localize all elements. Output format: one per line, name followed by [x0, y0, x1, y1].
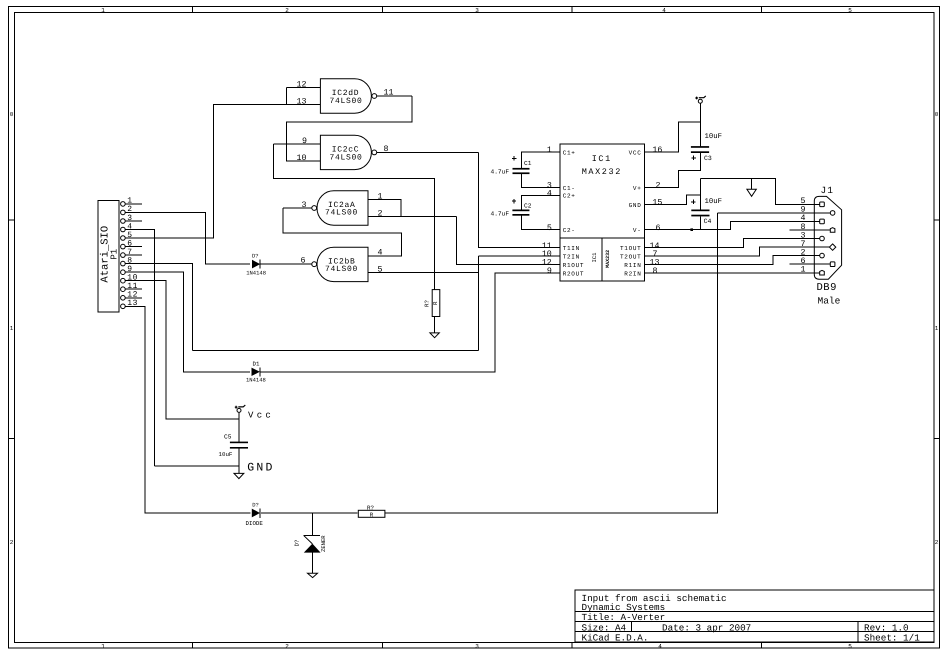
MAX232 pin 13 R1IN — [624, 259, 659, 269]
svg-text:10: 10 — [297, 154, 307, 163]
nand gate IC2c body — [320, 135, 376, 169]
svg-text:2: 2 — [656, 182, 661, 191]
svg-text:0: 0 — [935, 111, 939, 118]
svg-text:8: 8 — [384, 145, 389, 154]
svg-text:3: 3 — [475, 7, 479, 14]
J1 pin 8 — [790, 223, 835, 233]
J1 pin 3 — [801, 231, 825, 241]
P1 pin 12 — [121, 291, 142, 301]
IC2c pin 9 — [274, 137, 321, 146]
svg-text:1: 1 — [10, 325, 14, 332]
wire C1 bottom to pin3 — [521, 174, 560, 187]
svg-text:9: 9 — [547, 267, 552, 276]
svg-text:MAX232: MAX232 — [605, 250, 611, 268]
svg-text:4: 4 — [662, 7, 666, 14]
svg-text:C1-: C1- — [563, 185, 576, 192]
svg-text:11: 11 — [384, 89, 394, 98]
nand gate IC2a body (mirrored) — [312, 191, 368, 225]
svg-text:74LS00: 74LS00 — [325, 265, 358, 274]
MAX232 pin 6 V- — [633, 224, 661, 234]
P1 pin 7 — [121, 248, 142, 258]
svg-text:GND: GND — [247, 461, 274, 474]
wire P1.8 down to T2IN rail — [142, 264, 193, 351]
wire IC2d.11 feedback to IC2c.10 — [287, 96, 412, 161]
wire P1.2 to diode D? anode — [142, 212, 250, 264]
wire bottom rail R7 to DB9.9 vertical — [385, 213, 718, 513]
svg-text:D?: D? — [252, 253, 259, 260]
svg-text:P1: P1 — [109, 249, 119, 260]
wire bottom rail D7 to R7 — [261, 512, 358, 514]
IC2b pin 4 number — [378, 249, 383, 258]
wire C2 bottom to pin5 — [521, 216, 560, 230]
svg-text:16: 16 — [652, 146, 662, 155]
svg-text:R?: R? — [424, 300, 431, 307]
wire D? cathode to IC2b output 6 — [261, 263, 311, 265]
border column labels top — [101, 7, 852, 14]
J1 pin 1 — [801, 266, 825, 275]
svg-text:5: 5 — [848, 643, 852, 650]
svg-text:ZENER: ZENER — [320, 535, 327, 552]
wire P1.13 down to bottom rail — [142, 306, 251, 513]
wire C3 bottom to pin2 V+ — [644, 153, 700, 188]
svg-text:3: 3 — [475, 643, 479, 650]
MAX232 pin 8 R2IN — [624, 267, 657, 277]
J1 pin 5 — [801, 197, 825, 207]
wire P1.10 to Vcc stem — [142, 281, 239, 419]
svg-text:V+: V+ — [633, 185, 642, 192]
svg-text:C1+: C1+ — [563, 149, 576, 156]
J1 pin 4 — [801, 214, 825, 224]
svg-text:DIODE: DIODE — [246, 520, 264, 527]
junction on V- wire — [690, 228, 693, 231]
svg-text:D?: D? — [294, 539, 301, 546]
wire T2OUT to DB9.7 — [644, 247, 829, 256]
svg-text:1: 1 — [547, 146, 552, 155]
svg-text:74LS00: 74LS00 — [325, 209, 358, 218]
svg-text:15: 15 — [652, 199, 662, 208]
IC2d pin 12 — [287, 80, 321, 89]
IC U1 MAX232 main box — [560, 144, 644, 238]
IC2b pin 6 output wire to bubble — [301, 257, 312, 266]
wire pin4 to C2 top — [521, 195, 560, 209]
svg-text:C5: C5 — [224, 434, 232, 441]
MAX232 pin 3 C1- — [547, 182, 576, 192]
ground arrow below zener — [308, 573, 318, 577]
MAX232 pin 10 T2IN — [542, 250, 580, 260]
wire pin15 GND up to gnd net — [644, 195, 700, 205]
svg-text:C2: C2 — [524, 203, 532, 210]
wire pin6 V- to DB9.4 — [644, 221, 819, 229]
svg-text:GND: GND — [629, 202, 642, 209]
wire C4 bottom to V- wire — [699, 216, 701, 229]
svg-text:2: 2 — [285, 7, 289, 14]
border row labels right — [935, 111, 939, 546]
svg-text:D1: D1 — [253, 360, 260, 367]
svg-text:T1IN: T1IN — [563, 245, 580, 252]
IC2c pin 10 — [297, 154, 307, 163]
P1 pin 3 — [121, 214, 142, 224]
wire T2IN row to MAX232 — [479, 255, 560, 257]
svg-text:10uF: 10uF — [705, 198, 723, 206]
svg-text:13: 13 — [297, 97, 307, 106]
svg-text:1: 1 — [378, 192, 383, 201]
wire IC2c.8 down to T1IN — [479, 152, 560, 247]
wire P1.5 to IC2d inputs — [142, 104, 321, 238]
label GND — [247, 461, 274, 474]
power symbol Vcc — [235, 405, 246, 442]
svg-text:T1OUT: T1OUT — [620, 245, 642, 252]
svg-text:1: 1 — [801, 266, 806, 275]
svg-text:R: R — [370, 511, 374, 518]
border column labels bottom — [101, 643, 852, 650]
IC2a pin 3 output — [283, 201, 312, 210]
svg-text:IC1: IC1 — [591, 252, 598, 263]
power symbol flag top — [695, 96, 706, 147]
svg-text:1: 1 — [101, 7, 105, 14]
svg-text:6: 6 — [656, 224, 661, 233]
svg-text:D?: D? — [252, 502, 259, 509]
svg-text:9: 9 — [302, 137, 307, 146]
zener diode D? — [294, 535, 327, 573]
MAX232 pin 2 V+ — [633, 182, 661, 192]
svg-text:C2+: C2+ — [563, 193, 576, 200]
svg-text:Male: Male — [818, 296, 841, 307]
svg-text:2: 2 — [378, 209, 383, 218]
svg-text:0: 0 — [10, 111, 14, 118]
ground arrow below R? — [430, 333, 439, 338]
diode D7 — [246, 502, 264, 528]
capacitor C4 10uF — [691, 198, 722, 225]
svg-text:2: 2 — [10, 539, 14, 546]
svg-text:C3: C3 — [704, 155, 712, 162]
connector J1 DB9 outline — [814, 185, 841, 307]
svg-text:IC1: IC1 — [592, 154, 612, 164]
wire R1IN to DB9.2 — [644, 256, 819, 265]
svg-text:74LS00: 74LS00 — [329, 153, 362, 162]
svg-text:C2-: C2- — [563, 227, 576, 234]
svg-text:C4: C4 — [704, 218, 712, 225]
svg-text:T2IN: T2IN — [563, 254, 580, 261]
nand gate IC2d body — [320, 79, 376, 113]
svg-text:C1: C1 — [524, 160, 532, 167]
wire T2IN riser — [478, 256, 480, 351]
capacitor C2 4.7uF — [491, 199, 532, 218]
svg-text:2: 2 — [935, 539, 939, 546]
wire pin16 VCC up — [644, 122, 700, 152]
MAX232 pin 5 C2- — [547, 224, 576, 234]
svg-text:VCC: VCC — [629, 149, 642, 156]
svg-text:10uF: 10uF — [705, 133, 723, 141]
svg-text:5: 5 — [547, 224, 552, 233]
wire P1.9 down to D1 row — [142, 272, 250, 372]
svg-text:R1IN: R1IN — [624, 262, 641, 269]
MAX232 pin 7 T2OUT — [620, 250, 658, 260]
MAX232 lower box — [560, 238, 644, 281]
svg-text:KiCad E.D.A.: KiCad E.D.A. — [582, 633, 649, 644]
zener D? branch from rail — [312, 513, 314, 536]
svg-text:8: 8 — [653, 267, 658, 276]
capacitor C3 10uF — [691, 133, 722, 162]
IC2c pin 8 output — [377, 145, 479, 154]
wire IC2c.9 pulldown to R? — [274, 144, 435, 290]
svg-text:MAX232: MAX232 — [582, 167, 622, 177]
wire IC2a.3 to IC2b.4 — [283, 208, 401, 256]
IC2b pin 5 — [368, 266, 479, 275]
capacitor C1 4.7uF — [491, 156, 532, 175]
svg-text:4: 4 — [547, 189, 552, 198]
wire P1.4 to GND rail — [142, 230, 155, 466]
nand gate IC2b body (mirrored) — [312, 247, 368, 281]
P1 pin 1 — [121, 197, 142, 207]
svg-text:74LS00: 74LS00 — [329, 97, 362, 106]
IC2a pin 1 — [368, 192, 401, 216]
wire T2IN rail horizontal — [193, 350, 479, 352]
P1 pin 13 — [121, 299, 142, 309]
wire pin1 to C1 top — [521, 152, 560, 168]
P1 pin 4 — [121, 222, 142, 232]
svg-text:R2OUT: R2OUT — [563, 270, 585, 277]
MAX232 pin 14 T1OUT — [620, 242, 659, 252]
MAX232 pin 11 T1IN — [542, 242, 580, 252]
svg-text:12: 12 — [297, 80, 307, 89]
svg-text:2: 2 — [285, 643, 289, 650]
wire T1OUT to DB9.3 — [644, 239, 819, 248]
svg-text:4: 4 — [378, 249, 383, 258]
svg-text:4.7uF: 4.7uF — [491, 168, 510, 175]
wire GND row P1.4 to C5 stem — [155, 465, 239, 467]
P1 pin 10 — [121, 274, 142, 284]
ground arrow on gnd run — [747, 178, 756, 196]
wire IC2a inputs to R1OUT — [457, 216, 560, 264]
MAX232 pin 9 R2OUT — [547, 267, 584, 277]
border row labels left — [10, 111, 14, 546]
diode D? 1N4148 — [246, 253, 266, 277]
J1 pin 6 — [790, 257, 835, 267]
svg-text:V-: V- — [633, 227, 642, 234]
label Vcc — [248, 411, 274, 421]
svg-text:5: 5 — [378, 266, 383, 275]
MAX232 pin 1 C1+ — [547, 146, 576, 156]
J1 pin 7 — [801, 240, 836, 250]
svg-text:T2OUT: T2OUT — [620, 254, 642, 261]
svg-text:13: 13 — [127, 299, 138, 308]
svg-text:Sheet: 1/1: Sheet: 1/1 — [864, 633, 920, 644]
P1 pin 5 — [121, 231, 142, 241]
IC2d pin 11 output — [377, 89, 412, 98]
svg-text:4.7uF: 4.7uF — [491, 211, 510, 218]
svg-text:R2IN: R2IN — [624, 270, 641, 277]
TITLE-BLOCK — [575, 590, 934, 643]
svg-text:R1OUT: R1OUT — [563, 262, 585, 269]
IC2d pin 13 tie — [287, 87, 307, 106]
svg-text:4: 4 — [658, 643, 662, 650]
wire R? to ground arrow — [434, 317, 436, 333]
gnd net riser and top run — [700, 178, 819, 209]
MAX232 pin 16 VCC — [629, 146, 663, 156]
svg-text:1: 1 — [935, 325, 939, 332]
MAX232 pin 15 GND — [629, 199, 663, 209]
IC2a pin 2 — [368, 209, 457, 218]
P1 pin 2 — [121, 205, 142, 215]
resistor R7 — [358, 505, 385, 519]
J1 pin 2 — [801, 248, 825, 258]
connector P1 Atari_SIO body — [98, 201, 120, 312]
svg-text:10uF: 10uF — [219, 451, 233, 458]
ground arrow below C5 — [234, 473, 244, 478]
svg-text:1N4148: 1N4148 — [246, 377, 266, 384]
svg-text:1N4148: 1N4148 — [246, 269, 266, 276]
wire R2IN to DB9.1 — [644, 272, 819, 274]
P1 pin 11 — [121, 282, 142, 292]
MAX232 pin 12 R1OUT — [542, 259, 584, 269]
P1 pin 6 — [121, 239, 142, 249]
resistor R? — [424, 290, 440, 317]
wire D1 cathode to R2OUT — [261, 273, 560, 372]
svg-text:R: R — [432, 301, 439, 305]
J1 pin 9 — [717, 206, 835, 216]
P1 pin 9 — [121, 265, 142, 275]
svg-text:3: 3 — [302, 201, 307, 210]
svg-text:6: 6 — [301, 257, 306, 266]
svg-text:DB9: DB9 — [817, 282, 837, 294]
svg-text:5: 5 — [848, 7, 852, 14]
capacitor C5 — [219, 434, 249, 474]
svg-text:Date: 3 apr 2007: Date: 3 apr 2007 — [662, 622, 751, 633]
svg-text:Vcc: Vcc — [248, 411, 274, 421]
svg-text:J1: J1 — [821, 185, 834, 196]
diode D1 1N4148 — [246, 360, 266, 383]
P1 pin 8 — [121, 256, 142, 266]
svg-text:1: 1 — [101, 643, 105, 650]
MAX232 pin 4 C2+ — [547, 189, 576, 199]
